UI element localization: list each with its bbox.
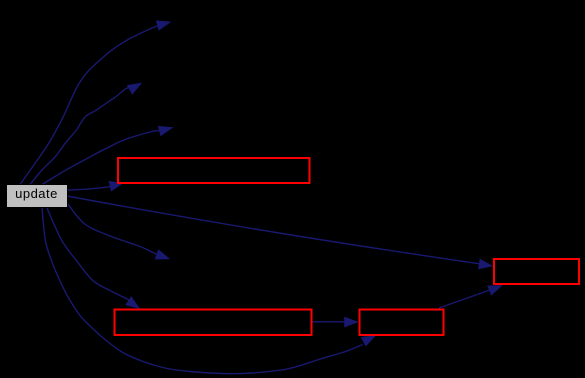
wire edge update to external callee 1 (top arrow) [20,21,171,185]
wire edge update to external callee 2 [30,83,142,185]
node update (gray function node) [6,184,69,208]
wire edge update to node N1 [67,181,123,191]
wire edge update to external callee 4 [67,203,170,259]
wire edge update to node N3 (bottom sweep arrow) [42,208,376,374]
wire edge update to node N4 (long straight arrow) [67,196,493,269]
node N3 (empty red box bottom small) [360,310,444,336]
wire edge N3 to N4 [439,285,502,308]
wire edge N2 to N3 [313,317,359,327]
wire edge update to node N2 [47,208,140,309]
wire edge update to external callee 3 [42,126,173,184]
node N4 (empty red box right) [494,259,579,284]
node N1 (empty red box top) [118,158,310,183]
node N2 (empty red box bottom large) [115,310,312,336]
